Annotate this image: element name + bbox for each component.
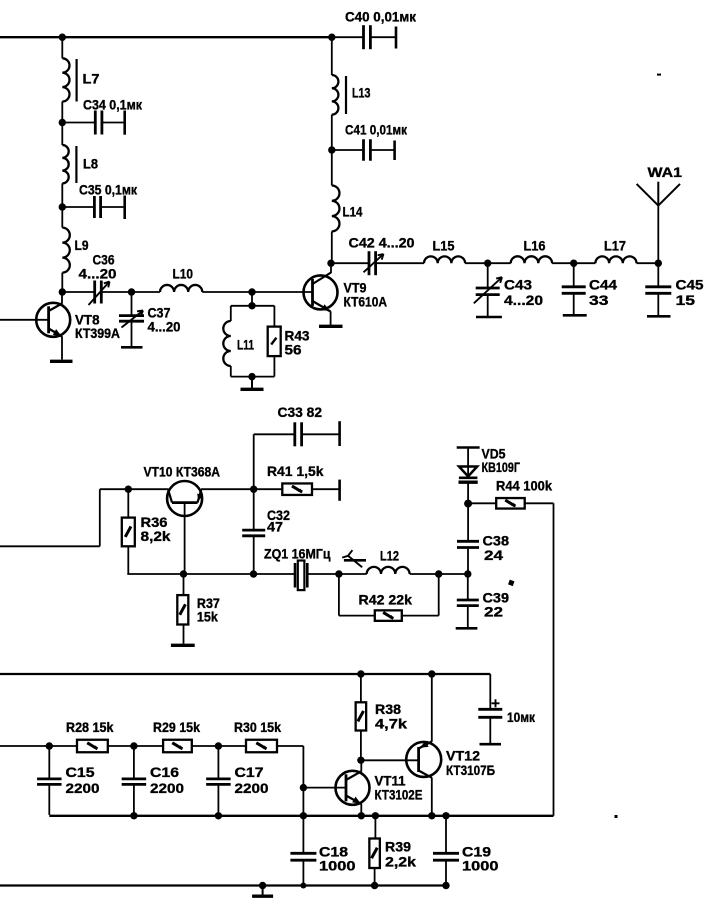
resistor R36 8,2k (127, 489, 129, 517)
svg-text:15k: 15k (197, 609, 218, 625)
capacitor C19 1000 (445, 816, 447, 854)
trimmer capacitor C42 4...20 (331, 262, 369, 264)
capacitor C16 2200 (133, 746, 135, 779)
node junction of top rail and L7 (59, 34, 66, 41)
node C18 bottom (300, 883, 306, 889)
capacitor C17 2200 (217, 746, 219, 779)
node C15/R28 (46, 742, 53, 749)
wire L10 node to VT9 base (252, 291, 313, 293)
node VT12 emitter top (428, 670, 435, 677)
wire emitter rail (49, 815, 553, 817)
inductor L7 (61, 37, 63, 58)
inductor L10 (132, 291, 161, 293)
node L7/L8/C34 (59, 119, 66, 126)
node rail crossing at C18 (300, 812, 307, 819)
svg-text:4...20: 4...20 (504, 292, 543, 308)
svg-text:КВ109Г: КВ109Г (482, 459, 521, 475)
wire to VT12 base (361, 759, 419, 761)
asterisk mark (508, 580, 514, 586)
svg-text:47: 47 (267, 519, 283, 535)
inductor L8 (61, 123, 63, 146)
svg-text:L10: L10 (173, 266, 194, 282)
inductor L9 (61, 207, 63, 228)
capacitor C44 33 (573, 263, 575, 287)
svg-text:R30 15k: R30 15k (234, 719, 281, 735)
node C19 bottom end (442, 882, 449, 889)
svg-text:C34 0,1мк: C34 0,1мк (83, 97, 143, 113)
svg-text:33: 33 (589, 292, 609, 308)
trimmer capacitor C37 4...20 (131, 292, 133, 316)
svg-text:C35 0,1мк: C35 0,1мк (79, 182, 138, 198)
node L16/L17/C44 (570, 260, 577, 267)
svg-text:КТ399А: КТ399А (75, 325, 120, 341)
wire mid rail to crystal (184, 573, 296, 575)
wire input from left edge (0, 545, 100, 547)
svg-text:VT10 КТ368А: VT10 КТ368А (144, 464, 221, 480)
svg-text:56: 56 (285, 342, 302, 358)
wire R28 row from left edge (0, 745, 77, 747)
trimmer capacitor C36 4...20 (62, 291, 94, 293)
resistor R30 15k (246, 740, 277, 753)
crystal ZQ1 16MHz (294, 563, 297, 588)
svg-text:R41 1,5k: R41 1,5k (267, 463, 324, 479)
svg-text:C40 0,01мк: C40 0,01мк (345, 9, 417, 25)
svg-text:C16: C16 (150, 764, 179, 780)
node L8/L9/C35 (59, 203, 66, 210)
ground of VT9 emitter (319, 325, 343, 328)
svg-text:L9: L9 (75, 237, 89, 253)
resistor R44 100k (468, 502, 496, 504)
trimmer capacitor C43 4...20 (487, 263, 489, 288)
wire node to tank (251, 292, 253, 306)
svg-text:R44 100k: R44 100k (496, 478, 552, 494)
ground of VT8 emitter (50, 360, 73, 363)
node VT10 base / R37 (180, 570, 187, 577)
capacitor C38 24 (467, 504, 469, 542)
node top of L11/R43 tank (248, 302, 255, 309)
wire node to VT10 (128, 488, 168, 490)
svg-text:2200: 2200 (66, 780, 100, 796)
svg-text:2200: 2200 (150, 780, 184, 796)
node C36/C37/L10 (128, 288, 135, 295)
svg-text:R28 15k: R28 15k (66, 719, 114, 735)
node C16 bottom (130, 812, 137, 819)
node C17 bottom (215, 812, 222, 819)
svg-text:ZQ1 16МГц: ZQ1 16МГц (264, 546, 331, 562)
wire R30 corner down to VT11 base and C18 (302, 746, 304, 853)
svg-text:L13: L13 (352, 85, 371, 101)
capacitor C15 2200 (48, 746, 50, 779)
wire long supply line (0, 673, 490, 675)
svg-text:WA1: WA1 (648, 164, 683, 180)
node VT9 collector / L14 / C42 (327, 260, 334, 267)
wire top horizontal rail (0, 36, 332, 38)
node C32 bottom (250, 570, 257, 577)
svg-text:2200: 2200 (235, 780, 269, 796)
svg-text:C17: C17 (235, 764, 264, 780)
inductor L11 (231, 305, 252, 307)
svg-text:L12: L12 (380, 548, 399, 564)
resistor R41 1,5k (254, 488, 283, 490)
varicap VD5 KV109G (457, 446, 480, 449)
node R39 top on rail (372, 812, 379, 819)
svg-text:C33 82: C33 82 (278, 404, 323, 420)
svg-text:L17: L17 (604, 238, 626, 254)
capacitor C33 82 (253, 434, 255, 489)
capacitor C32 47 (253, 489, 255, 530)
inductor L13 (331, 37, 333, 75)
node R38 / VT11 collector / VT12 base (357, 757, 364, 764)
capacitor C41 0,01mk (332, 149, 364, 151)
node L10 / L11 tank / VT9 base (248, 288, 255, 295)
node L12/R42 left (335, 570, 342, 577)
ground of bottom wire (262, 886, 264, 897)
svg-text:C44: C44 (589, 277, 617, 293)
inductor L12 (339, 573, 367, 575)
adjustment arrow of L12 (348, 556, 362, 567)
svg-text:15: 15 (676, 292, 696, 308)
ground of L11/R43 tank (251, 377, 253, 390)
transistor VT9 KT610A (304, 275, 338, 309)
scan speck (657, 74, 661, 76)
svg-text:8,2k: 8,2k (141, 528, 171, 544)
svg-text:C15: C15 (66, 764, 95, 780)
wire bottom from left edge (0, 884, 446, 886)
inductor L14 (331, 150, 333, 186)
wire to VT11 base (303, 787, 346, 789)
node collector of VT8 / L9 / C36 (59, 288, 66, 295)
node R36 / VT10 left (125, 486, 132, 493)
scan speck bottom right (615, 815, 618, 818)
svg-text:C45: C45 (676, 277, 704, 293)
svg-text:4...20: 4...20 (79, 266, 117, 282)
antenna WA1 (657, 206, 659, 264)
svg-text:R42 22k: R42 22k (359, 592, 413, 608)
node C38/C39 (464, 570, 471, 577)
svg-text:4,7k: 4,7k (375, 716, 407, 732)
svg-text:КТ3107Б: КТ3107Б (446, 762, 495, 778)
svg-text:C43: C43 (504, 277, 532, 293)
capacitor C35 0,1mk (62, 206, 94, 208)
svg-text:1000: 1000 (319, 858, 356, 874)
node ground tap (259, 882, 266, 889)
node bottom of tank (248, 373, 255, 380)
transistor VT11 KT3102E (336, 771, 370, 805)
svg-text:L16: L16 (524, 238, 546, 254)
svg-text:L11: L11 (237, 337, 254, 353)
capacitor C45 15 (657, 263, 659, 287)
svg-text:L7: L7 (83, 71, 100, 87)
wire to varicap chain (439, 573, 468, 575)
node L13/L14/C41 (328, 146, 335, 153)
svg-text:L14: L14 (343, 204, 363, 220)
svg-text:4...20: 4...20 (148, 319, 181, 335)
svg-text:C41 0,01мк: C41 0,01мк (345, 122, 408, 138)
capacitor C18 1000 (290, 852, 316, 855)
svg-text:24: 24 (484, 547, 503, 563)
inductor L17 (574, 262, 596, 264)
transistor VT10 KT368A (167, 481, 202, 516)
resistor R39 2,2k (374, 816, 376, 839)
wire R44 down to bottom rail (553, 503, 555, 816)
node R39 bottom (371, 882, 378, 889)
node VT11 base tap (300, 784, 307, 791)
capacitor C34 0,1mk (62, 122, 95, 124)
resistor R42 22k (338, 574, 340, 616)
svg-text:R29 15k: R29 15k (153, 719, 200, 735)
resistor R29 15k (163, 740, 192, 753)
resistor R37 15k (183, 574, 185, 595)
capacitor C40 0,01mk (328, 34, 335, 41)
inductor L16 (488, 262, 511, 264)
resistor R38 4,7k (360, 674, 362, 702)
node VT11 emitter on rail (358, 812, 365, 819)
node L15/L16/C43 (484, 260, 491, 267)
inductor L15 (424, 256, 465, 263)
svg-text:1000: 1000 (462, 858, 499, 874)
svg-text:10мк: 10мк (507, 709, 536, 725)
node antenna / L17 / C45 (655, 260, 662, 267)
node L12/R42 right (435, 570, 442, 577)
transistor VT8 KT399A (36, 303, 70, 337)
capacitor 10mk polarized (489, 674, 491, 709)
svg-text:КТ610А: КТ610А (344, 294, 388, 310)
node VT12 collector on rail (428, 812, 435, 819)
wire VT10 to C32 node (201, 488, 254, 490)
svg-text:2,2k: 2,2k (385, 854, 416, 870)
svg-text:22: 22 (484, 604, 503, 620)
node VD5 / R44 / C38 (464, 500, 472, 508)
transistor VT12 KT3107B (406, 742, 441, 777)
node R38 top (357, 670, 364, 677)
svg-text:КТ3102Е: КТ3102Е (375, 787, 423, 803)
node C17/R30 (215, 742, 222, 749)
svg-text:C42 4...20: C42 4...20 (349, 235, 415, 251)
svg-text:R39: R39 (385, 839, 411, 855)
ground of R37 (171, 644, 195, 647)
svg-text:L15: L15 (433, 238, 455, 254)
node C19 top on rail (442, 812, 449, 819)
svg-text:L8: L8 (83, 156, 98, 172)
node VT10 right / C33 / R41 / C32 (250, 486, 257, 493)
capacitor C39 22 (467, 574, 469, 600)
resistor R43 56 (252, 305, 274, 307)
node C16/R29 (130, 742, 137, 749)
resistor R28 15k (77, 740, 108, 753)
